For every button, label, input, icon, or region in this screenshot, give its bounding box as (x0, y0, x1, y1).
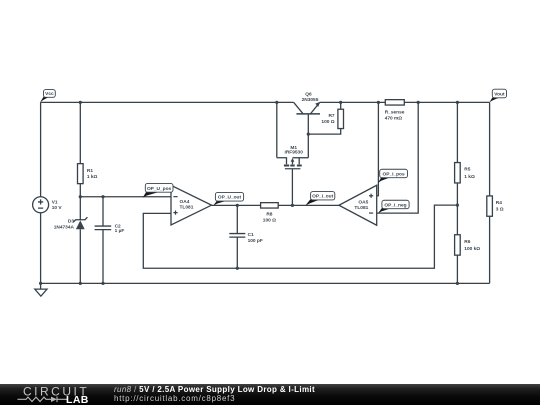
resistor R1 (78, 164, 98, 184)
svg-text:R1: R1 (87, 168, 93, 174)
resistor R5 (455, 163, 475, 183)
wire base node to R7 bottom (308, 129, 340, 135)
wire zener anode to bottom rail (79, 229, 81, 283)
node dot sense right at rail (417, 101, 420, 104)
wire OA4 output to R8 (212, 204, 261, 206)
svg-text:470 mΩ: 470 mΩ (385, 116, 403, 122)
svg-text:TL081: TL081 (180, 204, 194, 210)
svg-text:R5: R5 (464, 167, 470, 173)
node dot divider (456, 204, 459, 207)
node dot Q6 base / M1 drain (307, 133, 310, 136)
capacitor C1 (229, 232, 263, 244)
node dot R7 top at rail (339, 101, 342, 104)
CircuitLab logo (0, 384, 110, 405)
node dot zener top (79, 195, 82, 198)
node dot R1 top (79, 101, 82, 104)
zener diode D3 (54, 217, 88, 231)
net flag OP_I_pos (378, 169, 408, 183)
footer url (114, 395, 235, 403)
svg-text:OA4: OA4 (180, 199, 190, 205)
node dot C2 bottom rail (101, 282, 104, 285)
node dot R5 top at rail (456, 101, 459, 104)
wire C1 top lead (236, 205, 238, 233)
wire C1 bottom lead (236, 237, 238, 268)
wire node row y=196.4 to OA4 minus input (80, 196, 171, 198)
node dot V1 bottom rail (39, 282, 42, 285)
node dot C1 top (236, 204, 239, 207)
op-amp OA4 (171, 185, 212, 225)
wire V1 bottom to bottom rail (40, 213, 42, 284)
net flag Vout (489, 89, 506, 102)
wire R7 top lead (340, 102, 342, 109)
node dot M1 source at rail (275, 101, 278, 104)
wire Q6 base lead (307, 114, 309, 134)
svg-text:R8: R8 (266, 212, 272, 218)
voltage source V1 (33, 197, 63, 213)
svg-text:OP_I_out: OP_I_out (312, 194, 333, 200)
resistor R8 (261, 203, 279, 224)
footer bar (0, 384, 540, 405)
wire R4 bottom to bottom rail (489, 216, 491, 283)
node dot C1 bottom (236, 267, 239, 270)
wire M1 drain to Q6 base node (307, 134, 309, 158)
net flag OP_I_neg (378, 200, 409, 213)
svg-text:R_sense: R_sense (385, 110, 405, 116)
ground (35, 283, 47, 296)
resistor R6 (455, 235, 481, 255)
svg-text:D3: D3 (68, 219, 74, 225)
wire M1 gate lead (291, 169, 293, 206)
svg-text:3 Ω: 3 Ω (496, 207, 504, 213)
net flag OP_I_out (305, 192, 334, 206)
svg-text:OP_I_pos: OP_I_pos (383, 171, 405, 177)
svg-text:Vout: Vout (494, 92, 505, 98)
svg-text:1 µF: 1 µF (115, 228, 125, 234)
svg-text:R7: R7 (328, 113, 334, 119)
op-amp OA5 (339, 185, 377, 225)
svg-text:100 Ω: 100 Ω (263, 217, 276, 223)
wire R1 bottom to node (79, 184, 81, 220)
wire C2 top lead (102, 197, 104, 226)
wire C2 bottom lead (102, 230, 104, 284)
svg-text:Vcc: Vcc (45, 91, 54, 97)
resistor R7 (321, 109, 343, 128)
wire R8 to OA5 output (278, 204, 339, 206)
wire OA4 plus input feedback (143, 205, 457, 268)
wire top rail right segment (R_sense to Vout corner) (404, 101, 489, 103)
net flag Vcc (40, 90, 55, 103)
svg-text:IRF9530: IRF9530 (284, 149, 303, 155)
svg-text:100 Ω: 100 Ω (321, 119, 334, 125)
wire R5 top lead (456, 102, 458, 162)
svg-text:R6: R6 (464, 239, 470, 245)
wire divider node to R6 top (456, 205, 458, 235)
svg-text:V1: V1 (52, 200, 58, 206)
wire R1 top lead from rail (79, 102, 81, 163)
node dot zener bottom rail (79, 282, 82, 285)
node dot M1 gate (291, 204, 294, 207)
svg-text:C1: C1 (248, 232, 254, 238)
wire left column Vcc drop to V1 top (40, 102, 42, 196)
node dot C2 top (101, 195, 104, 198)
svg-text:TL081: TL081 (354, 205, 368, 211)
svg-text:OP_U_out: OP_U_out (218, 195, 242, 201)
net flag OP_U_out (213, 192, 243, 205)
svg-text:LAB: LAB (66, 394, 89, 405)
wire bottom rail (41, 282, 490, 284)
footer title text (114, 386, 315, 394)
svg-text:1 kΩ: 1 kΩ (464, 174, 475, 180)
svg-text:OP_U_pos: OP_U_pos (147, 186, 172, 192)
wire top rail middle segment (Q6 emitter to R_sense) (320, 101, 386, 103)
svg-text:10 V: 10 V (52, 205, 63, 211)
svg-text:Q6: Q6 (305, 92, 312, 98)
wire R6 bottom to bottom rail (456, 255, 458, 283)
svg-text:100 pF: 100 pF (248, 238, 263, 244)
svg-text:100 kΩ: 100 kΩ (464, 246, 480, 252)
resistor R4 (487, 196, 504, 216)
wire top rail left segment (Vcc to Q6 collector) (41, 101, 294, 103)
mosfet M1 (277, 145, 309, 169)
svg-text:2N3055: 2N3055 (302, 97, 319, 103)
node dot R6 bottom rail (456, 282, 459, 285)
node dot OA5 plus at rail (377, 101, 380, 104)
svg-text:1 kΩ: 1 kΩ (87, 174, 98, 180)
svg-text:OP_I_neg: OP_I_neg (384, 202, 406, 208)
net flag OP_U_pos (143, 183, 173, 197)
wire R5 bottom to divider node (456, 183, 458, 205)
transistor Q6 (294, 92, 320, 114)
wire M1 source lead from rail (276, 102, 278, 157)
wire OA5 minus input to sense node (377, 102, 419, 213)
svg-text:1N4734A: 1N4734A (54, 225, 75, 231)
resistor R_sense (385, 100, 405, 122)
svg-text:OA5: OA5 (358, 200, 368, 206)
capacitor C2 (95, 224, 125, 235)
wire OA5 plus input up to rail (377, 102, 379, 195)
wire Vout corner down to R4 (489, 102, 491, 196)
svg-text:R4: R4 (496, 200, 502, 206)
